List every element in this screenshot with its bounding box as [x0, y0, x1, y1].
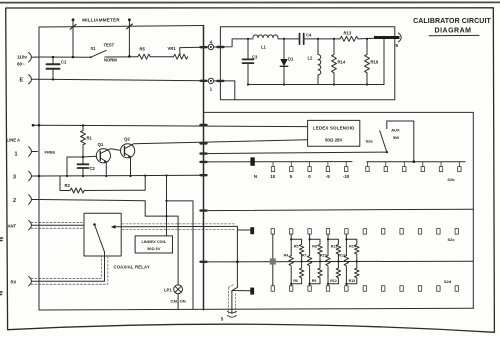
solenoid LEDEX box	[308, 120, 360, 146]
svg-text:L2: L2	[308, 56, 314, 61]
through connection stud 1	[270, 234, 276, 286]
svg-text:3: 3	[13, 175, 16, 181]
svg-text:R5: R5	[140, 47, 146, 52]
oscillator box	[220, 27, 394, 100]
labels N 10 5 0 -5 -10	[254, 174, 350, 179]
wire terminal 2 to coil bracket	[39, 200, 145, 217]
svg-text:0: 0	[308, 174, 311, 179]
label 110v 60~	[17, 55, 27, 67]
wire bottom rail	[39, 308, 473, 310]
svg-text:Q1: Q1	[98, 142, 104, 147]
svg-text:S2d: S2d	[444, 279, 452, 284]
svg-text:DIAGRAM: DIAGRAM	[435, 28, 472, 35]
S2d wiper solid contact	[250, 288, 254, 295]
svg-text:R4: R4	[284, 253, 289, 257]
svg-text:CAL ON: CAL ON	[170, 299, 185, 304]
switch assembly box	[204, 112, 474, 308]
svg-text:R13: R13	[344, 30, 352, 35]
svg-text:R5: R5	[294, 245, 299, 249]
lamp LP1	[174, 285, 183, 310]
wire tap to lamp bus	[167, 201, 194, 310]
inductor L1	[253, 35, 278, 38]
svg-text:E: E	[20, 78, 24, 84]
node junction meter-110v	[72, 56, 75, 59]
wire VR1 wiper to connector 4	[180, 47, 204, 52]
svg-text:60~: 60~	[17, 62, 25, 67]
svg-text:10: 10	[270, 174, 275, 179]
svg-text:R2: R2	[65, 183, 71, 188]
switch S2b left bar	[204, 161, 353, 163]
svg-text:N: N	[254, 174, 257, 179]
svg-text:C1: C1	[61, 60, 67, 65]
resistor R16	[365, 38, 370, 86]
terminal 1 FREE	[29, 147, 38, 156]
svg-text:R1: R1	[87, 136, 93, 141]
resistor R14	[332, 38, 337, 86]
relay COAXIAL RELAY box	[84, 213, 121, 256]
terminal 2	[29, 195, 39, 204]
attenuator unit 4 (R13 R14 R15)	[338, 234, 359, 286]
node junction bus-lineA	[32, 124, 35, 127]
wire connector 4 into box	[214, 39, 253, 47]
wire coax feed vertical	[232, 226, 239, 313]
capacitor C3	[243, 38, 254, 86]
connector 4	[208, 40, 213, 50]
switch S2a	[204, 121, 388, 154]
connector 5 bottom	[227, 311, 236, 317]
svg-text:50Ω 28V: 50Ω 28V	[325, 137, 343, 142]
svg-text:R6: R6	[293, 279, 298, 283]
svg-text:RX: RX	[11, 279, 17, 284]
svg-text:TEST: TEST	[104, 42, 115, 47]
title underline	[429, 34, 479, 36]
wire oscillator bottom bus	[248, 84, 384, 86]
wire norm contact to R5	[105, 56, 138, 58]
node junction bracket	[165, 215, 167, 217]
potentiometer VR1	[173, 54, 187, 59]
wire LINE A rail to solenoid	[33, 125, 308, 126]
S2d stud row	[271, 286, 458, 292]
wire connector 1 into box	[214, 81, 235, 100]
svg-text:1: 1	[15, 151, 18, 157]
svg-text:R9: R9	[312, 279, 317, 283]
VR1 wiper arrowhead	[179, 53, 181, 55]
wire top rail	[39, 26, 204, 28]
svg-text:1: 1	[210, 86, 213, 91]
terminal 110v input	[29, 53, 39, 62]
wire coil bracket	[145, 216, 178, 285]
terminal E	[29, 75, 39, 84]
relay LINDEX COIL box	[135, 236, 172, 253]
svg-text:L1: L1	[261, 45, 267, 50]
wire base junction to Q1	[83, 155, 97, 158]
terminal RX coax	[29, 256, 108, 286]
svg-text:S1: S1	[91, 46, 97, 51]
resistor R1	[81, 124, 86, 157]
wire base junction jog	[67, 157, 83, 176]
node junction meter-norm	[128, 55, 131, 58]
capacitor C4	[300, 34, 304, 45]
wire S2a to S2b bar	[387, 121, 414, 162]
inductor L2	[317, 38, 321, 85]
wire 110v rail	[39, 56, 91, 58]
svg-text:S2c: S2c	[447, 237, 455, 242]
svg-text:COAXIAL RELAY: COAXIAL RELAY	[114, 264, 150, 269]
wire left bus vertical	[38, 27, 40, 310]
node junction tap	[165, 200, 167, 202]
svg-text:LEDEX SOLENOID: LEDEX SOLENOID	[313, 125, 355, 130]
svg-text:R13: R13	[338, 253, 345, 257]
svg-text:LINDEX COIL: LINDEX COIL	[141, 239, 166, 244]
svg-text:R7: R7	[302, 253, 307, 257]
transistor Q2	[121, 144, 135, 176]
wire divider rail	[204, 209, 474, 210]
feedthrough ticks on wall	[201, 47, 207, 262]
svg-text:5: 5	[396, 43, 399, 48]
attenuator unit 3 (R10 R11 R12)	[320, 234, 341, 286]
wire attenuator center line	[204, 260, 474, 263]
svg-text:5W: 5W	[393, 135, 399, 140]
svg-text:2: 2	[13, 198, 16, 204]
coax output bar to connector 5	[374, 33, 401, 85]
node base junction	[82, 156, 84, 158]
S2c stud row	[271, 229, 458, 235]
svg-text:VR1: VR1	[168, 46, 177, 51]
svg-text:110v: 110v	[17, 55, 27, 60]
S2b right contacts	[366, 162, 461, 172]
capacitor C1	[47, 56, 60, 81]
svg-text:R14: R14	[338, 60, 346, 65]
svg-text:FREE: FREE	[45, 149, 56, 154]
label AUX 5W	[391, 128, 400, 141]
node junction S2a feed	[413, 160, 416, 163]
svg-text:MILLIAMMETER: MILLIAMMETER	[82, 18, 120, 23]
node milliammeter left terminal	[70, 18, 76, 56]
wire terminal 3 rail	[39, 174, 204, 177]
svg-text:R15: R15	[349, 279, 356, 283]
wire Q1 collector to Q2 base	[108, 149, 121, 151]
svg-text:ANT: ANT	[8, 223, 17, 228]
S2b left contacts	[271, 162, 348, 172]
wire R13 to output	[358, 37, 374, 40]
scan edge artifact top	[0, 1, 500, 3]
svg-text:R16: R16	[371, 60, 379, 65]
wire ANT coax right segment	[121, 224, 237, 230]
terminal 3	[29, 171, 39, 180]
svg-text:S2b: S2b	[447, 177, 455, 182]
svg-text:-5: -5	[326, 174, 330, 179]
svg-text:LINE A: LINE A	[7, 138, 21, 143]
wire L1 to C4	[278, 38, 300, 40]
attenuator unit 2 (R7 R8 R9)	[302, 234, 322, 286]
svg-text:5: 5	[221, 317, 224, 322]
svg-text:R12: R12	[330, 279, 337, 283]
label S1 TEST NORM	[91, 42, 118, 62]
label LINE A	[7, 138, 21, 158]
svg-text:30Ω 6V: 30Ω 6V	[147, 246, 161, 251]
wire solenoid return vertical	[166, 176, 168, 236]
svg-text:C4: C4	[306, 33, 312, 38]
svg-text:R8: R8	[312, 245, 317, 249]
attenuator unit 1 (R4 R5 R6)	[284, 234, 304, 286]
switch S1	[90, 50, 106, 58]
svg-text:4: 4	[210, 40, 213, 45]
node milliammeter right terminal	[127, 18, 133, 56]
wire feed to S2d wiper	[232, 290, 250, 292]
diode D1	[280, 38, 287, 86]
svg-text:R14: R14	[349, 245, 356, 249]
svg-text:S2a: S2a	[365, 139, 373, 144]
resistor R2 branch	[60, 176, 145, 193]
title CALIBRATOR CIRCUIT DIAGRAM	[413, 18, 491, 35]
svg-text:D1: D1	[288, 57, 294, 62]
wire C4 to R13	[304, 38, 340, 40]
svg-text:C3: C3	[252, 55, 258, 60]
transistor Q1	[96, 149, 110, 176]
connector 1	[208, 78, 213, 91]
svg-text:AUX: AUX	[391, 128, 400, 133]
S2c wiper solid contact	[250, 227, 254, 234]
node junctions on rail 3	[38, 174, 168, 177]
svg-text:R11: R11	[331, 245, 337, 249]
scan edge artifact left marks	[0, 238, 3, 295]
wire R5 to VR1	[150, 56, 173, 58]
capacitor C2	[78, 157, 89, 176]
wire chassis wall vertical	[203, 26, 205, 310]
coax shield dashes at feed elbow	[228, 284, 235, 313]
svg-text:CALIBRATOR CIRCUIT: CALIBRATOR CIRCUIT	[413, 18, 491, 25]
wire Q2 collector rail	[132, 140, 307, 145]
wire feed to S2c wiper	[237, 229, 250, 231]
switch S2b right bar	[367, 161, 465, 163]
feedthrough ticks on box edge	[217, 47, 223, 81]
svg-text:NORM: NORM	[104, 58, 117, 63]
svg-text:Q2: Q2	[124, 136, 130, 141]
S2b wiper solid contact	[250, 157, 254, 165]
svg-text:-10: -10	[343, 174, 350, 179]
wire E rail to connector 1	[39, 79, 204, 81]
resistor R5	[138, 54, 150, 59]
resistor R13	[340, 36, 358, 41]
svg-text:C2: C2	[90, 166, 96, 171]
terminal ANT coax	[29, 221, 84, 230]
svg-text:R10: R10	[320, 253, 327, 257]
svg-text:LP1: LP1	[164, 287, 172, 292]
svg-text:5: 5	[290, 174, 293, 179]
